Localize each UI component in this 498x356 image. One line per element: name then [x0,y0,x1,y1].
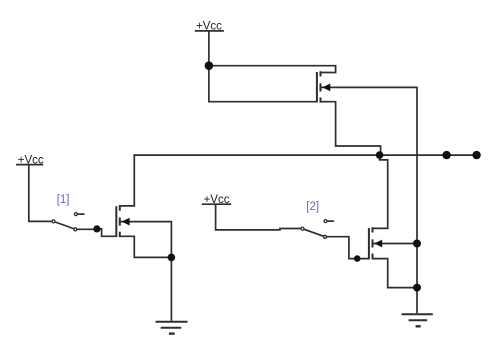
svg-text:+Vcc: +Vcc [204,194,230,206]
svg-text:[2]: [2] [306,201,319,213]
svg-text:+Vcc: +Vcc [196,21,222,33]
svg-text:[1]: [1] [57,194,70,206]
svg-text:+Vcc: +Vcc [18,154,44,166]
